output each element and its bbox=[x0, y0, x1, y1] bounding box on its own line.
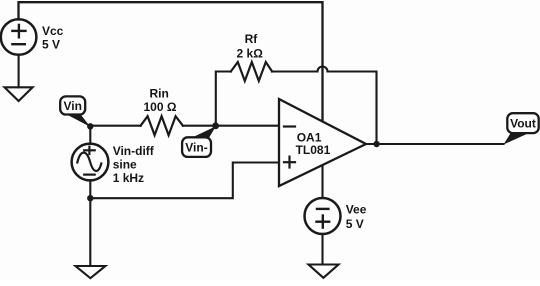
svg-text:Rin: Rin bbox=[150, 86, 169, 100]
svg-text:1 kHz: 1 kHz bbox=[113, 171, 144, 185]
label Rf 2 kΩ bbox=[237, 32, 264, 60]
svg-text:Vcc: Vcc bbox=[42, 24, 64, 38]
resistor Rf bbox=[231, 62, 272, 81]
op-amp OA1 triangle bbox=[279, 99, 366, 186]
op-amp inverting input marker - bbox=[284, 125, 295, 127]
svg-text:5 V: 5 V bbox=[42, 38, 60, 52]
wire Vcc to ground bbox=[18, 55, 20, 88]
voltage source Vee bbox=[305, 198, 341, 234]
ground (input) bbox=[76, 266, 106, 278]
wire sine source to bottom node bbox=[89, 180, 91, 198]
wire bottom node to ground bbox=[89, 198, 91, 266]
wire Vin node to Rin bbox=[90, 125, 140, 127]
wire Vin- node up to Rf bbox=[216, 72, 231, 126]
svg-text:Vin-: Vin- bbox=[185, 141, 207, 155]
label Vee 5 V bbox=[346, 203, 367, 232]
node label Vin- bbox=[182, 126, 216, 157]
ground (Vee) bbox=[309, 265, 339, 278]
node bottom junction dot bbox=[87, 195, 93, 201]
wire Vin- node to op-amp inverting input bbox=[216, 125, 279, 127]
ground (Vcc) bbox=[5, 87, 33, 101]
label Vin-diff sine 1 kHz bbox=[113, 144, 155, 185]
svg-text:Vin: Vin bbox=[63, 99, 81, 113]
op-amp non-inverting input marker + bbox=[284, 157, 295, 168]
node Vin- junction dot bbox=[212, 122, 219, 129]
label OA1 TL081 bbox=[296, 130, 331, 157]
wire Vin node down to sine source bbox=[89, 126, 91, 144]
svg-text:5 V: 5 V bbox=[346, 217, 364, 231]
wire bottom node to op-amp non-inverting input bbox=[90, 163, 279, 199]
svg-text:Vee: Vee bbox=[346, 203, 367, 217]
resistor Rin bbox=[141, 116, 183, 135]
node label Vin bbox=[60, 96, 90, 127]
wire Vcc to V+ rail (top) and down to op-amp V+ pin bbox=[19, 2, 323, 121]
svg-text:sine: sine bbox=[113, 158, 137, 172]
svg-text:Rf: Rf bbox=[245, 32, 259, 46]
wire Vee to ground bbox=[321, 234, 323, 265]
wire Rf to output node with hop over V+ rail bbox=[272, 67, 376, 145]
voltage source Vin-diff (sine) bbox=[72, 144, 109, 181]
svg-text:TL081: TL081 bbox=[296, 143, 331, 157]
node output junction dot bbox=[373, 141, 379, 147]
wire op-amp V- pin to Vee bbox=[321, 166, 323, 199]
node label Vout bbox=[504, 113, 539, 144]
label Vcc 5 V bbox=[42, 24, 64, 52]
wire op-amp output bbox=[366, 143, 504, 145]
node Vin junction dot bbox=[87, 123, 93, 129]
voltage source Vcc bbox=[1, 19, 37, 55]
svg-text:2 kΩ: 2 kΩ bbox=[237, 46, 264, 60]
svg-text:Vin-diff: Vin-diff bbox=[113, 144, 155, 158]
label Rin 100 Ω bbox=[144, 86, 177, 114]
svg-text:Vout: Vout bbox=[510, 117, 536, 131]
wire Rin to Vin- node bbox=[183, 125, 216, 127]
svg-text:100 Ω: 100 Ω bbox=[144, 100, 177, 114]
